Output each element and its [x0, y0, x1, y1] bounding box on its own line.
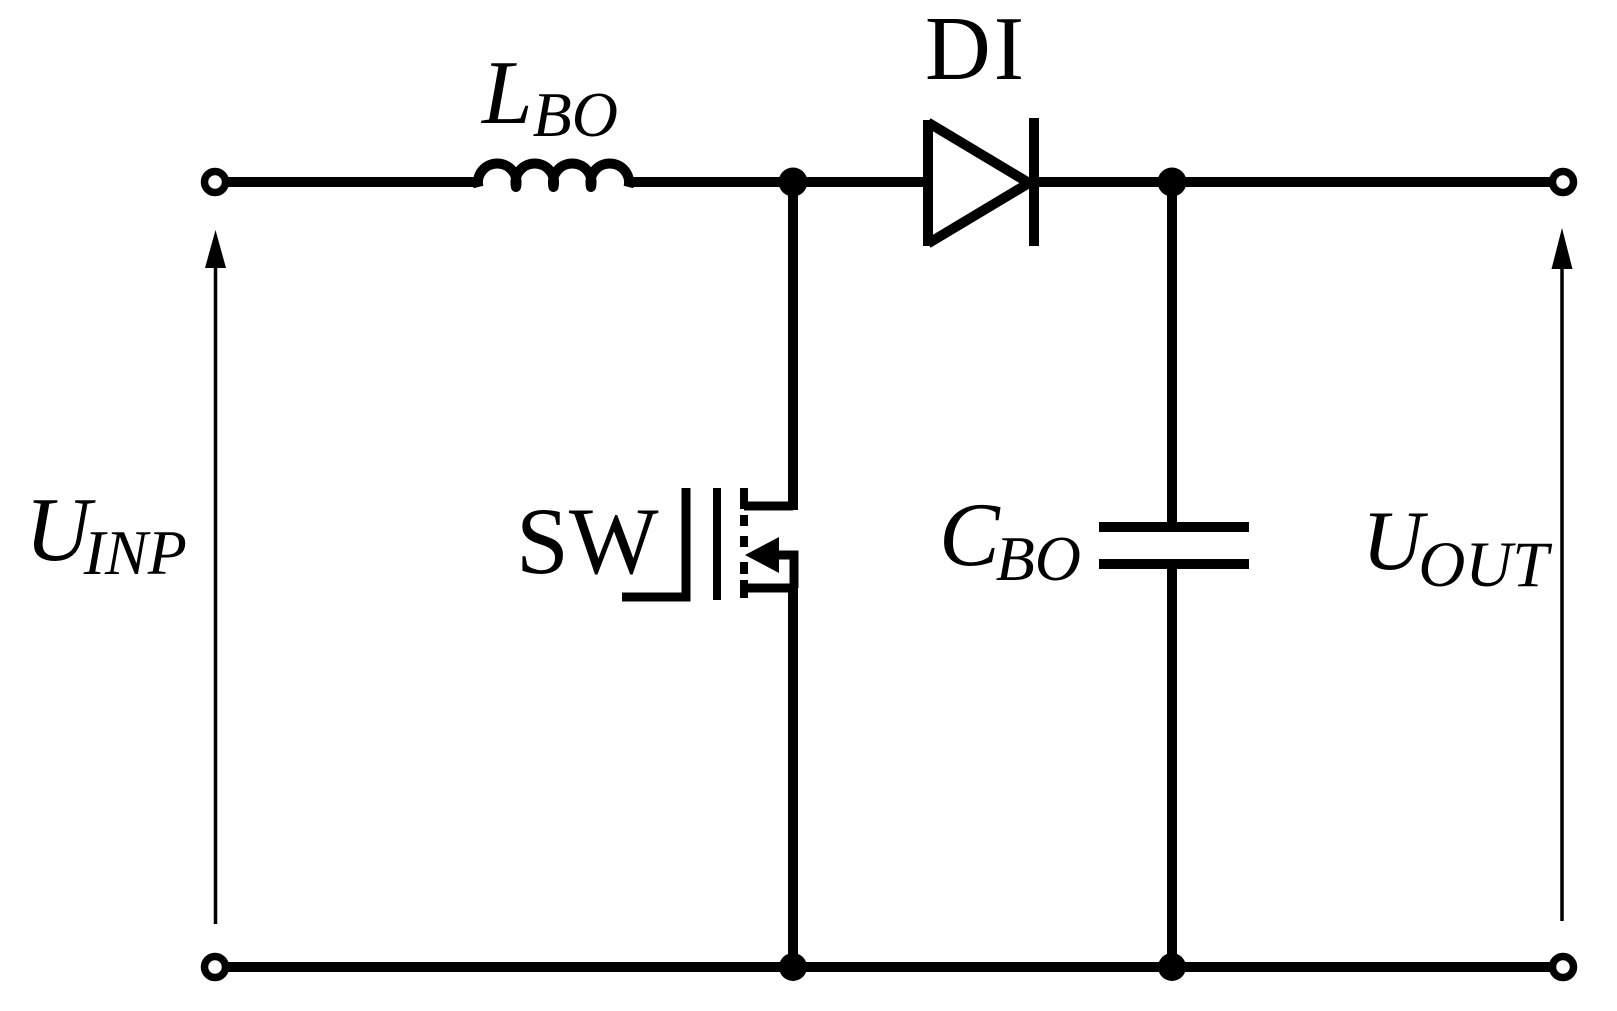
wire: capacitor bottom lead	[1167, 568, 1177, 967]
svg-text:DI: DI	[925, 0, 1027, 99]
input terminal top	[205, 172, 226, 193]
SW body arrowhead	[745, 537, 779, 573]
wire: top rail, inductor to diode anode	[629, 177, 928, 187]
svg-text:SW: SW	[516, 488, 659, 594]
SW body connection with arrow	[770, 555, 794, 588]
SW gate lead	[622, 488, 686, 597]
transistor SW (n-channel MOSFET)	[622, 488, 797, 600]
U_INP voltage arrow	[205, 230, 226, 924]
inductor L_BO	[478, 163, 629, 187]
input terminal bottom	[205, 957, 226, 978]
SW gate plate	[713, 488, 721, 600]
U_OUT voltage arrow	[1552, 228, 1573, 921]
junction node at inductor/diode/switch	[779, 168, 808, 197]
junction node at capacitor/bottom rail	[1158, 953, 1186, 981]
SW drain connection	[744, 502, 793, 511]
wire: bottom rail	[226, 962, 1552, 972]
junction node at switch source/bottom rail	[779, 953, 807, 981]
wire: top rail, diode cathode to output terminal	[1034, 177, 1552, 187]
diode DI triangle	[928, 123, 1029, 244]
wire: capacitor top lead	[1167, 182, 1177, 523]
SW channel dash top (drain contact)	[740, 488, 748, 509]
wire: top rail, input terminal to inductor	[226, 177, 479, 187]
SW channel dash 3 (body contact)	[740, 536, 748, 547]
capacitor C_BO bottom plate	[1099, 559, 1249, 569]
SW channel dash 2	[740, 515, 748, 526]
wire: switch source vertical	[788, 584, 798, 967]
diode DI anode bar	[923, 120, 933, 246]
junction node at diode/capacitor/output	[1158, 168, 1187, 197]
capacitor C_BO top plate	[1099, 522, 1249, 532]
output terminal bottom	[1553, 957, 1574, 978]
SW channel dash 4	[740, 562, 748, 574]
diode DI cathode bar	[1029, 118, 1039, 246]
SW source connection	[744, 584, 797, 593]
SW channel dash bottom (source contact)	[740, 580, 748, 598]
output terminal top	[1553, 172, 1574, 193]
wire: switch drain vertical	[788, 182, 798, 510]
